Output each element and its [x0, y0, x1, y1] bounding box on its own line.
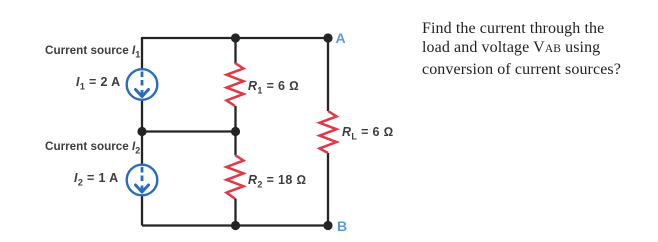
resistor R1 zigzag — [227, 63, 244, 106]
junction node middle-center — [231, 127, 240, 136]
wire: right vertical upper (A to RL) — [327, 38, 329, 111]
label: Current source I1 — [45, 44, 140, 58]
label: RL = 6 ohm — [342, 125, 394, 139]
junction node bottom middle — [231, 221, 240, 230]
question text — [422, 19, 658, 80]
node B dot — [323, 221, 332, 230]
resistor RL zigzag — [320, 111, 337, 153]
node A label — [336, 31, 346, 45]
current source I2 circle — [127, 165, 158, 196]
wire: left vertical lower (I2 to bottom) — [141, 196, 143, 226]
current source I2 arrow (dashed, down) — [141, 167, 144, 182]
node B label — [337, 219, 347, 233]
wire: right vertical lower (RL to B) — [327, 153, 329, 226]
wire: middle vertical upper (top to R1) — [234, 38, 236, 64]
wire: middle vertical lower (R2 to bottom) — [234, 199, 236, 226]
label: R1 = 6 ohm — [248, 79, 299, 93]
wire: left vertical between I1 and I2 — [141, 100, 143, 165]
label: R2 = 18 ohm — [248, 173, 306, 187]
node A dot — [323, 33, 332, 42]
wire: middle vertical between R1 and R2 — [234, 106, 236, 155]
label: Current source I2 — [45, 140, 140, 154]
wire: middle horizontal — [142, 130, 236, 132]
wire: top horizontal (node to A) — [142, 37, 328, 39]
current source I1 circle — [127, 69, 158, 100]
label: I1 = 2 A — [76, 75, 121, 89]
junction node top middle — [231, 33, 240, 42]
current source I1 arrow (dashed, down) — [141, 72, 144, 87]
junction node middle-left — [137, 127, 146, 136]
resistor R2 zigzag — [227, 155, 244, 199]
wire: bottom horizontal — [142, 224, 328, 226]
label: I2 = 1 A — [74, 171, 119, 185]
wire: left vertical upper (top to I1 source) — [141, 37, 143, 69]
